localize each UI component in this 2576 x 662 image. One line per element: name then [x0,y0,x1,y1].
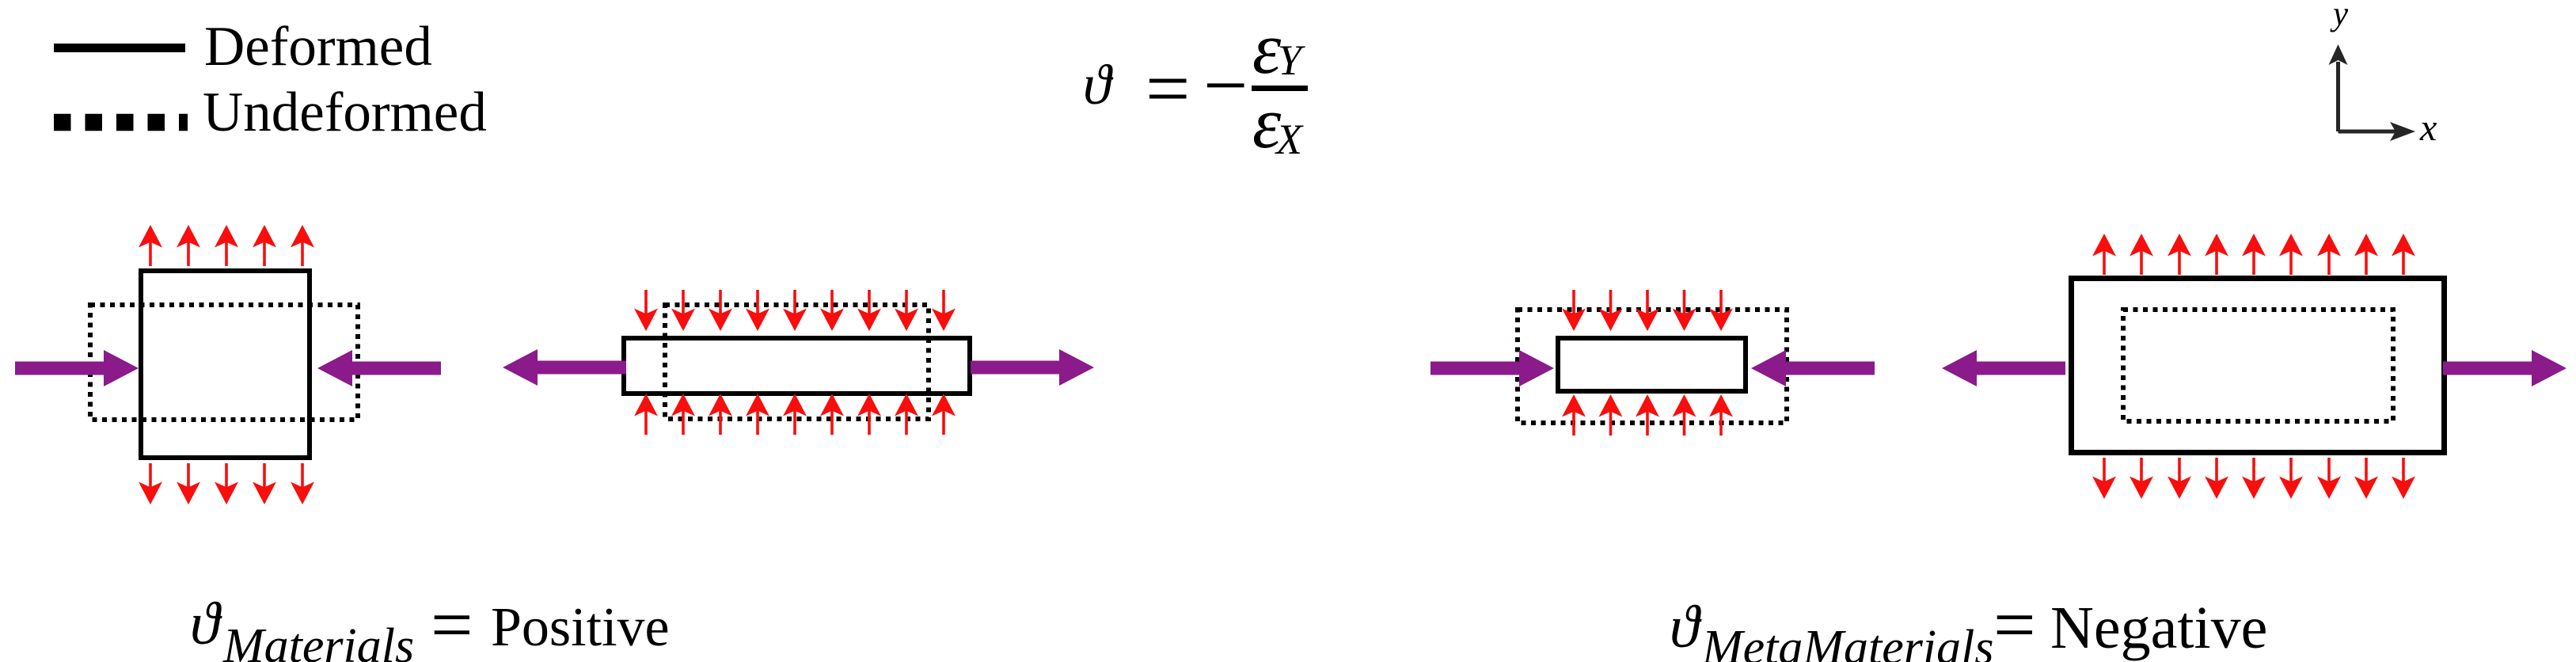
diagram 2: red contraction arrows top [634,290,956,331]
svg-text:Deformed: Deformed [204,16,432,78]
svg-text:Materials: Materials [222,619,414,662]
diagram 4: deformed solid large rectangle [2072,279,2445,453]
diagram 4: purple tension arrow left [1942,350,2065,386]
diagram 2: red contraction arrows bottom [634,394,956,435]
diagram 3: purple compression arrow right [1751,350,1875,386]
diagram 2: undeformed dotted rectangle [665,305,929,419]
svg-text:y: y [2330,0,2349,32]
diagram 1: deformed solid square [141,271,310,458]
diagram 3: red contraction arrows bottom [1562,394,1733,436]
svg-text:=: = [1993,583,2036,662]
svg-text:=: = [431,583,473,662]
svg-text:x: x [2419,107,2437,149]
svg-text:ϑ: ϑ [190,591,222,657]
diagram 4: red expansion arrows bottom [2092,458,2415,499]
diagram 2: deformed solid long rectangle [624,338,970,394]
diagram 1: undeformed dotted rectangle [90,305,358,420]
axis y arrow [2329,44,2348,131]
diagram 3: red contraction arrows top [1562,290,1733,331]
diagram 4: undeformed dotted rectangle [2123,310,2393,421]
diagram 1: purple compression arrow left [15,350,139,386]
diagram 3: purple compression arrow left [1430,350,1554,386]
diagram 4: purple tension arrow right [2443,350,2567,386]
axis x arrow [2339,122,2416,141]
legend solid line (Deformed) [54,44,185,52]
svg-text:Positive: Positive [491,597,670,658]
legend dotted line (Undeformed) [54,114,188,131]
svg-text:ϑ: ϑ [1670,594,1702,660]
svg-text:=: = [1146,44,1190,132]
diagram 4: red expansion arrows top [2092,234,2415,275]
formula fraction bar [1252,86,1308,91]
diagram 1: red expansion arrows top [139,225,314,266]
diagram 2: purple tension arrow left [503,349,626,386]
diagram 3: undeformed dotted rectangle [1518,310,1787,423]
diagram 3: deformed solid small rectangle [1558,338,1746,391]
svg-text:Negative: Negative [2050,595,2267,661]
svg-text:X: X [1275,116,1304,163]
svg-text:Y: Y [1278,36,1305,84]
svg-text:Undeformed: Undeformed [203,82,487,143]
svg-text:−: − [1203,41,1248,129]
svg-text:MetaMaterials: MetaMaterials [1701,621,1994,662]
diagram 1: purple compression arrow right [317,350,441,386]
diagram 2: purple tension arrow right [971,349,1094,386]
svg-text:ϑ: ϑ [1083,53,1114,116]
diagram 1: red expansion arrows bottom [139,463,314,504]
